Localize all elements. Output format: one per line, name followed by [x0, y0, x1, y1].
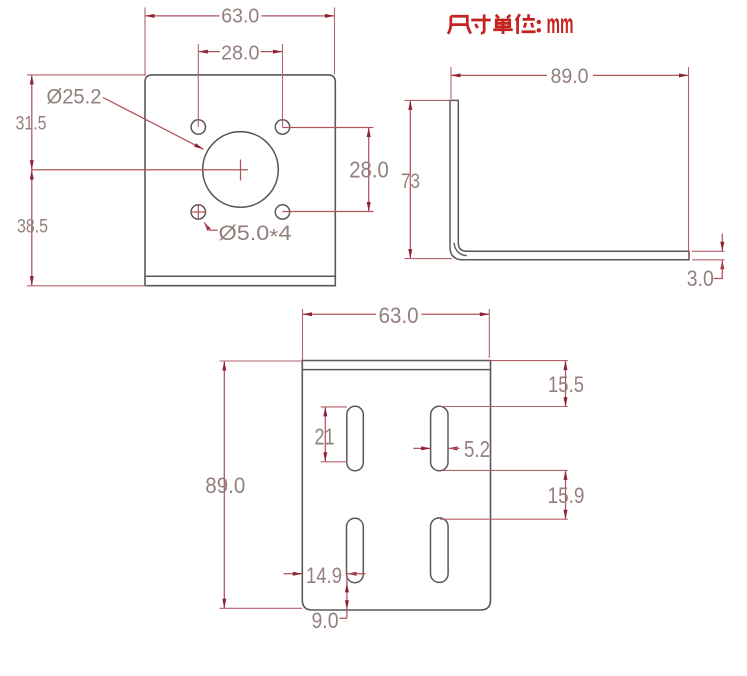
dim 21 vertical line [324, 407, 326, 462]
dim 5.2 right arrow [448, 446, 458, 450]
fullwidth colon upper dot [537, 20, 541, 24]
dim 63.0 front line [145, 15, 335, 17]
dim 9.0 down arrow [345, 600, 349, 610]
dim 15.9 extension lines [440, 470, 568, 519]
dim 14.9 right arrow shaft [347, 573, 366, 575]
dim 89.0 side right arrow [679, 73, 689, 77]
dim 73 extension lines [405, 100, 453, 258]
svg-text:63.0: 63.0 [221, 5, 259, 28]
dim 21 top arrow [323, 407, 327, 417]
svg-text:Ø5.0*4: Ø5.0*4 [219, 222, 292, 249]
dim 15.5 extension lines [440, 361, 568, 407]
screw hole bottom-right [275, 205, 289, 219]
dim 5.2 left arrow shaft [413, 447, 430, 449]
wire top-right hole to right dim [283, 127, 374, 129]
dim 15.9 top arrow [564, 470, 568, 480]
dim 89.0 bottom extension lines [220, 361, 303, 608]
dim 89.0 side left arrow [451, 73, 461, 77]
dim 28.0 front left arrow [198, 50, 208, 54]
dim 15.9 bottom arrow [564, 510, 568, 520]
dim 73 top arrow [408, 100, 412, 110]
L-profile bend middle arc [454, 243, 467, 256]
horizontal centerline through bore [32, 169, 248, 171]
dim 3.0 lower line with leader [714, 260, 723, 279]
dim 14.9 left arrow shaft [284, 573, 303, 575]
dim 89.0 bottom vertical line [223, 361, 225, 608]
dim 9.0 leader to text [340, 617, 347, 619]
dim 38.5 bottom arrow [30, 276, 34, 286]
dim 63.0 bottom right arrow [480, 312, 490, 316]
dim 73 bottom arrow [408, 249, 412, 259]
dim 15.9 vertical line [565, 470, 567, 519]
dim 63.0 front extension lines [145, 8, 335, 75]
svg-text:15.9: 15.9 [548, 483, 585, 508]
fullwidth colon lower dot [537, 28, 541, 32]
svg-text:21: 21 [315, 424, 335, 450]
screw hole leader line [205, 223, 218, 231]
slot top-left [347, 406, 364, 471]
dim 5.2 left arrow [421, 446, 431, 450]
svg-text:14.9: 14.9 [306, 563, 342, 588]
dim 5.2 right arrow shaft [448, 447, 460, 449]
bore circle [203, 132, 279, 208]
svg-text:5.2: 5.2 [464, 436, 490, 462]
svg-text:63.0: 63.0 [379, 303, 419, 328]
dim 89.0 side line [451, 74, 689, 76]
dim 63.0 front right arrow [325, 14, 335, 18]
bottom-left hole crosshair [191, 204, 207, 220]
dim 89.0 side extension lines [451, 67, 689, 259]
dim 28.0 right top arrow [367, 128, 371, 138]
svg-text:28.0: 28.0 [349, 157, 389, 183]
dim 31.5 bottom arrow [30, 160, 34, 170]
dim 3.0 down arrow [720, 242, 724, 252]
dim 63.0 bottom left arrow [303, 312, 313, 316]
svg-text:38.5: 38.5 [17, 216, 48, 238]
front plate outline [145, 75, 335, 286]
dim 63.0 front left arrow [145, 14, 155, 18]
dim 89.0 bottom bottom arrow [222, 599, 226, 609]
dim 15.5 top arrow [564, 361, 568, 371]
svg-text:73: 73 [401, 169, 420, 193]
screw hole top-right [275, 120, 289, 134]
screw hole leader arrow [204, 222, 211, 231]
dim 21 extension lines [321, 407, 347, 462]
screw hole top-left [191, 120, 205, 134]
wire bottom-right hole to right dim [283, 211, 374, 213]
svg-text:28.0: 28.0 [221, 41, 260, 64]
bore leader line [103, 98, 204, 150]
bore leader arrow [194, 143, 203, 149]
dim 3.0 up arrow [720, 260, 724, 270]
dim 9.0 vertical line [346, 572, 348, 619]
dim 3.0 upper line [721, 234, 723, 252]
svg-text:31.5: 31.5 [16, 113, 47, 135]
base plate fold line [302, 369, 490, 371]
dim 9.0 up arrow [345, 583, 349, 593]
dim 14.9 left arrow [293, 572, 303, 576]
dim 38.5 top arrow [30, 170, 34, 180]
dim 28.0 front right arrow [273, 50, 283, 54]
svg-text:3.0: 3.0 [687, 266, 714, 291]
CJK char dan (single) [493, 15, 512, 34]
svg-text:15.5: 15.5 [548, 372, 584, 397]
L-profile outline [450, 100, 689, 259]
dim 89.0 bottom top arrow [222, 361, 226, 371]
dim 73 vertical line [409, 100, 411, 258]
dim 31.5/38.5 vertical line [31, 75, 33, 286]
dim 28.0 right bottom arrow [367, 202, 371, 212]
svg-text:89.0: 89.0 [205, 473, 245, 498]
dim 15.5 vertical line [565, 361, 567, 407]
svg-text:mm: mm [547, 8, 574, 39]
svg-text:Ø25.2: Ø25.2 [47, 85, 102, 108]
CJK char cun (unit) [471, 14, 490, 33]
svg-text:9.0: 9.0 [312, 608, 339, 633]
CJK char wei (position) [516, 14, 536, 34]
front plate fold line [145, 275, 335, 277]
slot bottom-right [431, 518, 449, 583]
base plate outline [302, 361, 490, 611]
dim 21 bottom arrow [323, 452, 327, 462]
slot bottom-left [347, 518, 364, 582]
dim 63.0 bottom line [303, 313, 490, 315]
dim 28.0 right vertical line [368, 128, 370, 212]
dim 28.0 front extension lines [198, 44, 282, 127]
bore center cross vertical [240, 160, 242, 181]
dim 28.0 front line [198, 51, 282, 53]
dim 14.9 right arrow [347, 572, 357, 576]
dim 63.0 bottom extension lines [303, 309, 490, 360]
dim 15.5 bottom arrow [564, 397, 568, 407]
dim 31.5/38.5 extension lines [27, 75, 146, 286]
dim 3.0 extension lines [692, 251, 725, 259]
dim 31.5 top arrow [30, 75, 34, 85]
svg-text:89.0: 89.0 [551, 64, 589, 88]
CJK char chi (ruler) [448, 16, 471, 34]
screw hole bottom-left [191, 205, 205, 219]
slot top-right [431, 406, 448, 471]
